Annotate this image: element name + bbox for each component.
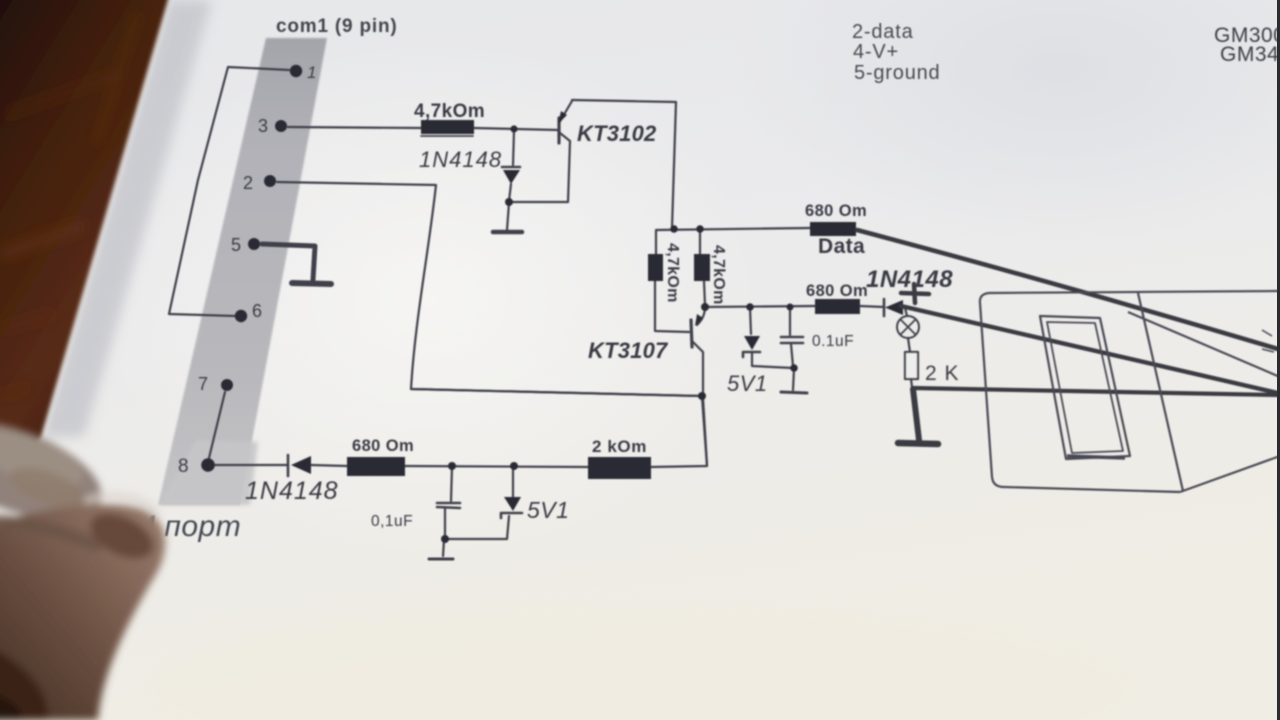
svg-text:3: 3 [258, 116, 268, 136]
svg-text:4,7kOm: 4,7kOm [710, 245, 727, 305]
svg-text:0.1uF: 0.1uF [812, 333, 854, 350]
svg-text:680 Om: 680 Om [352, 437, 414, 455]
svg-text:Data: Data [818, 235, 865, 258]
svg-text:com1 (9 pin): com1 (9 pin) [276, 16, 398, 37]
svg-text:KT3107: KT3107 [588, 338, 669, 363]
svg-text:1N4148: 1N4148 [245, 477, 339, 505]
svg-text:8: 8 [178, 456, 189, 477]
svg-text:2-data: 2-data [852, 21, 914, 43]
svg-text:4,7kOm: 4,7kOm [664, 243, 681, 303]
svg-text:5V1: 5V1 [727, 371, 768, 396]
svg-text:2: 2 [243, 173, 253, 193]
svg-text:1N4148: 1N4148 [419, 147, 502, 172]
svg-text:680 Om: 680 Om [806, 282, 868, 300]
svg-text:1N4148: 1N4148 [866, 266, 953, 293]
svg-text:680 Om: 680 Om [805, 202, 867, 220]
svg-text:5-ground: 5-ground [854, 62, 940, 84]
svg-text:2 kOm: 2 kOm [592, 437, 647, 456]
svg-text:6: 6 [252, 301, 262, 321]
svg-text:KT3102: KT3102 [577, 121, 657, 146]
svg-text:7: 7 [198, 374, 208, 394]
svg-text:5V1: 5V1 [527, 497, 569, 523]
svg-text:GM340: GM340 [1220, 43, 1280, 66]
svg-text:5: 5 [231, 235, 241, 255]
svg-text:2 K: 2 K [925, 362, 960, 385]
svg-text:0,1uF: 0,1uF [371, 513, 413, 530]
svg-text:4,7kOm: 4,7kOm [414, 101, 485, 122]
svg-text:4-V+: 4-V+ [853, 41, 899, 63]
svg-text:1: 1 [307, 63, 316, 82]
